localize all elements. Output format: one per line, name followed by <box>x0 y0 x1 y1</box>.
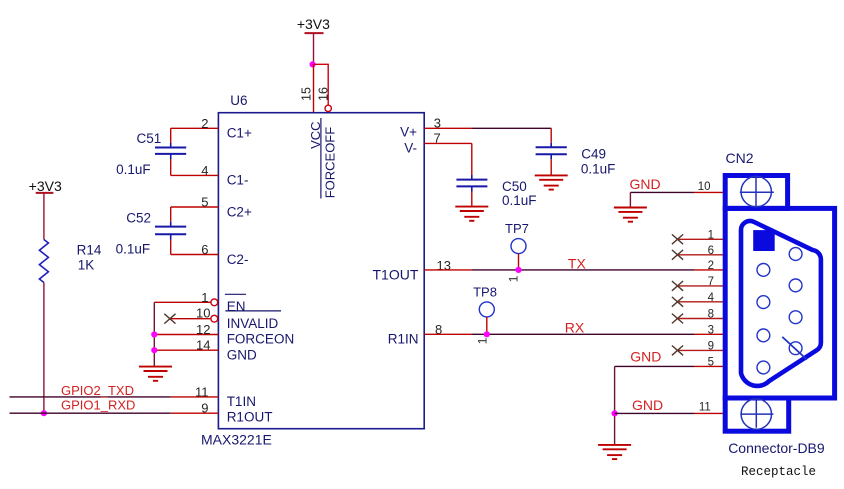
svg-text:EN: EN <box>227 299 246 314</box>
svg-text:Receptacle: Receptacle <box>741 465 816 479</box>
power +3V3 (left) <box>29 178 62 194</box>
svg-text:TP8: TP8 <box>473 285 497 300</box>
svg-text:15: 15 <box>300 87 314 101</box>
no-connect X on pin 10 <box>164 314 175 324</box>
svg-text:3: 3 <box>708 325 714 337</box>
node dot pin12 <box>151 331 157 337</box>
svg-text:GND: GND <box>630 176 661 192</box>
svg-text:R1OUT: R1OUT <box>227 409 273 424</box>
svg-text:FORCEON: FORCEON <box>227 332 295 347</box>
wire EN chain vertical <box>153 302 155 366</box>
svg-text:V-: V- <box>404 140 417 155</box>
pin 6 <box>171 254 219 256</box>
svg-text:0.1uF: 0.1uF <box>502 193 537 208</box>
DB9 pin circles right column <box>789 248 802 355</box>
wire GND to CN2 pin 5 <box>615 365 694 367</box>
wire GND vertical <box>614 366 616 444</box>
pin 14 (GND) <box>154 349 218 351</box>
svg-text:7: 7 <box>708 276 714 288</box>
svg-text:6: 6 <box>201 242 208 257</box>
svg-text:4: 4 <box>708 292 715 304</box>
wire GND to CN2 pin 10 <box>630 191 694 193</box>
svg-text:4: 4 <box>201 163 208 178</box>
svg-text:R14: R14 <box>77 243 102 258</box>
svg-text:1K: 1K <box>78 257 95 272</box>
wire GPIO2_TXD to pin 11 <box>10 396 171 398</box>
no-connect stub CN2 pin 8 <box>677 318 725 320</box>
svg-text:C2-: C2- <box>227 252 249 267</box>
pin 16 stub with bubble <box>314 64 332 111</box>
svg-text:0.1uF: 0.1uF <box>581 161 616 176</box>
no-connect stub CN2 pin 7 <box>677 285 725 287</box>
svg-text:C51: C51 <box>137 131 162 146</box>
svg-text:INVALID: INVALID <box>227 316 279 331</box>
svg-text:GND: GND <box>632 397 663 413</box>
capacitor C49 <box>536 128 616 176</box>
svg-text:C2+: C2+ <box>227 204 252 219</box>
ground under GND net <box>614 208 647 222</box>
svg-text:FORCEOFF: FORCEOFF <box>323 127 338 199</box>
svg-text:Connector-DB9: Connector-DB9 <box>728 440 825 456</box>
svg-text:10: 10 <box>698 181 711 193</box>
svg-text:+3V3: +3V3 <box>297 16 330 32</box>
IC U6 MAX3221E body <box>218 113 424 429</box>
svg-text:13: 13 <box>437 258 451 273</box>
svg-text:2: 2 <box>708 260 714 272</box>
node dot pin14 <box>151 347 157 353</box>
svg-text:1: 1 <box>506 275 520 282</box>
node dot GND junction <box>612 410 618 416</box>
svg-text:RX: RX <box>565 319 585 335</box>
svg-text:5: 5 <box>201 194 208 209</box>
pin 7 stub (V-) <box>424 142 472 144</box>
svg-text:V+: V+ <box>400 124 417 139</box>
pin 4 <box>171 174 219 176</box>
mounting hole top <box>740 176 774 206</box>
pin 10 (INVALID) <box>170 318 211 320</box>
svg-text:TP7: TP7 <box>505 221 529 236</box>
svg-text:11: 11 <box>699 402 711 414</box>
wire R14 to R1OUT net <box>43 283 45 414</box>
resistor R14 <box>39 240 48 283</box>
pin 5 <box>171 206 219 208</box>
capacitor C52 <box>116 207 187 257</box>
ground bottom <box>598 445 631 459</box>
svg-text:GND: GND <box>630 348 661 364</box>
svg-text:0.1uF: 0.1uF <box>116 162 151 177</box>
svg-text:GND: GND <box>227 348 257 363</box>
wire +3V3 to R14 <box>43 193 45 240</box>
capacitor C51 <box>116 128 186 177</box>
svg-text:8: 8 <box>708 309 714 321</box>
ground under C49 <box>535 175 568 189</box>
svg-text:R1IN: R1IN <box>388 332 419 347</box>
svg-text:2: 2 <box>201 116 208 131</box>
svg-text:10: 10 <box>196 306 210 321</box>
power +3V3 (top) <box>297 16 330 33</box>
DB9 D-shell outline <box>741 221 821 386</box>
node junction at pin15 <box>310 61 316 67</box>
connector CN2 top tab <box>725 176 787 209</box>
svg-text:CN2: CN2 <box>726 150 754 166</box>
pin 8 stub (R1IN) <box>424 333 472 335</box>
no-connect stub CN2 pin 9 <box>677 349 725 351</box>
pin 13 stub (T1OUT) <box>424 269 472 271</box>
capacitor C50 <box>456 143 536 207</box>
svg-text:1: 1 <box>201 290 208 305</box>
svg-text:U6: U6 <box>230 93 247 108</box>
no-connect stub CN2 pin 4 <box>677 301 725 303</box>
mounting hole bottom <box>740 399 773 429</box>
left pin stubs <box>154 128 218 350</box>
svg-text:T1IN: T1IN <box>227 394 256 409</box>
svg-text:T1OUT: T1OUT <box>373 266 419 282</box>
DB9 pin 1 square marker <box>753 230 775 251</box>
svg-text:0.1uF: 0.1uF <box>116 242 151 257</box>
pin 12 (FORCEON) <box>154 334 218 336</box>
wire +3V3 to junction <box>313 33 315 64</box>
pin 2 <box>171 127 219 129</box>
DB9 pin circles left column <box>757 264 770 374</box>
wire GND to CN2 pin 11 <box>615 412 694 414</box>
svg-text:+3V3: +3V3 <box>29 178 62 194</box>
svg-text:C49: C49 <box>581 147 606 162</box>
DB9 slash through pin circle <box>782 337 807 360</box>
svg-text:1: 1 <box>475 337 489 344</box>
pin 15 stub <box>313 64 315 112</box>
svg-text:C1+: C1+ <box>227 126 252 141</box>
svg-text:16: 16 <box>317 87 331 101</box>
wire RX net <box>472 333 694 335</box>
svg-text:GPIO2_TXD: GPIO2_TXD <box>61 383 134 398</box>
overline INVALID <box>225 310 281 312</box>
svg-text:GPIO1_RXD: GPIO1_RXD <box>61 397 135 412</box>
no-connect stub CN2 pin 1 <box>677 238 725 240</box>
svg-text:12: 12 <box>196 322 210 337</box>
pin 1 (EN) <box>154 301 211 303</box>
svg-text:9: 9 <box>708 341 714 353</box>
svg-text:14: 14 <box>196 337 210 352</box>
ground under C50 <box>455 207 488 221</box>
svg-text:5: 5 <box>708 357 714 369</box>
wire GPIO1_RXD to pin 9 <box>10 412 171 414</box>
svg-text:C1-: C1- <box>227 172 249 187</box>
wire V+ to C49 <box>472 127 551 129</box>
svg-text:TX: TX <box>568 256 587 272</box>
no-connect stub CN2 pin 6 <box>677 254 725 256</box>
node dot on GPIO1_RXD <box>41 410 47 416</box>
svg-text:1: 1 <box>708 230 714 242</box>
connector CN2 bottom tab <box>725 398 789 431</box>
connector CN2 main body <box>725 208 834 398</box>
ground under EN chain <box>139 367 172 381</box>
overline EN <box>225 293 246 295</box>
wire TX net <box>472 269 694 271</box>
svg-text:C52: C52 <box>126 210 151 225</box>
pin 3 stub (V+) <box>424 127 472 129</box>
svg-text:MAX3221E: MAX3221E <box>201 431 272 447</box>
svg-text:6: 6 <box>708 245 714 257</box>
